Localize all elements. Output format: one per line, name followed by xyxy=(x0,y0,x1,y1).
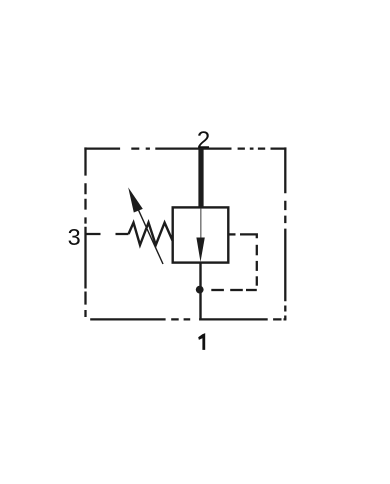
port label 1 xyxy=(198,333,205,350)
adjustment arrow shaft xyxy=(135,201,164,264)
valve envelope square xyxy=(173,207,229,262)
enclosure boundary (dash-dot frame) xyxy=(84,147,286,319)
wire: port 1 line xyxy=(199,262,201,320)
wire: port 3 drain stub (dashed) xyxy=(86,233,129,235)
svg-text:3: 3 xyxy=(68,224,81,250)
junction dot xyxy=(196,286,204,294)
adjustment arrowhead xyxy=(128,187,143,212)
pilot line (dashed) from valve right side to junction xyxy=(211,234,256,290)
spring (adjustable) xyxy=(129,223,173,245)
flow path line inside valve xyxy=(200,209,202,240)
wire: port 2 line (thick) xyxy=(198,149,203,208)
flow arrowhead (down) xyxy=(196,238,204,263)
